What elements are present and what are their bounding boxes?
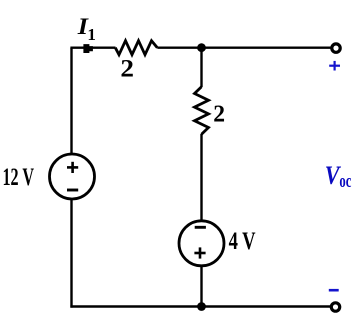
wire top horizontal right segment: [157, 47, 330, 49]
wire from resistor R2 to voltage source V2: [200, 134, 202, 220]
V2 plus sign: [194, 247, 205, 258]
V1 plus sign: [67, 162, 78, 173]
svg-text:2: 2: [213, 100, 225, 127]
svg-text:4 V: 4 V: [229, 228, 256, 255]
label - (blue terminal polarity): [329, 289, 339, 292]
V2 minus sign: [195, 226, 206, 229]
wire top horizontal left segment: [70, 47, 115, 49]
svg-text:2: 2: [120, 56, 134, 83]
V1 minus sign: [67, 189, 78, 192]
wire bottom horizontal: [70, 305, 330, 307]
resistor R2: [195, 87, 209, 135]
current arrow I1: [83, 44, 93, 53]
terminal + (open circle): [332, 44, 340, 52]
wire left vertical lower (V1 to bottom corner): [70, 200, 72, 308]
wire left vertical (12V source to top corner): [70, 48, 72, 154]
node B junction dot: [197, 302, 206, 311]
svg-text:1: 1: [87, 25, 96, 44]
voltage source V1 (12 V): [50, 154, 95, 199]
label + (blue terminal polarity): [329, 61, 340, 71]
svg-text:12 V: 12 V: [3, 164, 35, 191]
wire from node A down to resistor R2: [200, 48, 202, 87]
svg-text:oc: oc: [339, 172, 351, 192]
node A junction dot: [197, 43, 206, 52]
terminal - (open circle): [331, 303, 339, 311]
voltage source V2 (4 V): [179, 221, 224, 266]
wire from V2 to bottom node: [200, 267, 202, 307]
resistor R1: [115, 41, 157, 55]
